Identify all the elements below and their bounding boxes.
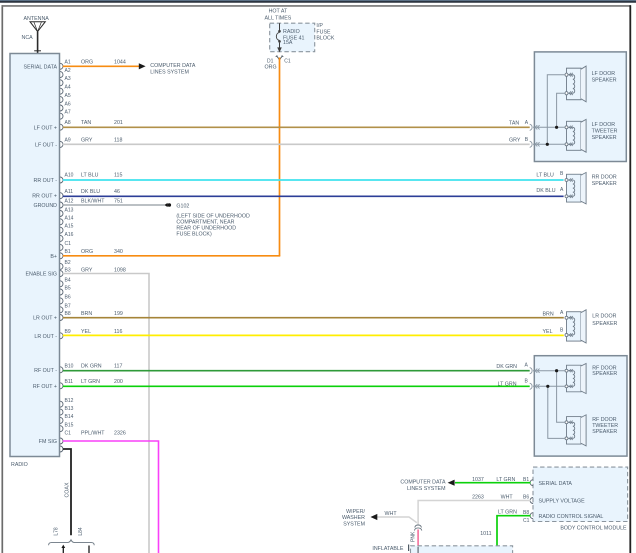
svg-text:LT GRN: LT GRN xyxy=(498,509,517,515)
svg-text:SPEAKER: SPEAKER xyxy=(592,371,617,377)
svg-text:C1: C1 xyxy=(523,518,530,524)
svg-text:46: 46 xyxy=(114,189,120,195)
wire A8 TAN 201 xyxy=(63,126,530,128)
svg-text:SUPPLY VOLTAGE: SUPPLY VOLTAGE xyxy=(539,499,586,505)
svg-text:LT GRN: LT GRN xyxy=(496,477,515,483)
svg-text:A5: A5 xyxy=(65,93,71,99)
svg-text:BLOCK: BLOCK xyxy=(316,36,334,42)
svg-text:B9: B9 xyxy=(65,329,71,335)
RF internal wires xyxy=(533,371,565,439)
body control module box xyxy=(533,467,628,521)
svg-text:118: 118 xyxy=(114,138,122,144)
antenna lead wires xyxy=(61,545,89,553)
svg-text:ORG: ORG xyxy=(81,60,93,66)
svg-text:LF OUT -: LF OUT - xyxy=(35,143,57,149)
antenna symbol xyxy=(30,22,45,54)
svg-text:A16: A16 xyxy=(65,232,74,238)
outer frame left xyxy=(1,5,3,553)
svg-text:BODY CONTROL MODULE: BODY CONTROL MODULE xyxy=(560,526,627,532)
wire A12 BLK/WHT 751 to ground xyxy=(63,204,165,206)
svg-text:A9: A9 xyxy=(65,138,71,144)
svg-text:SERIAL DATA: SERIAL DATA xyxy=(24,64,58,70)
svg-text:A12: A12 xyxy=(65,198,74,204)
junction RF A xyxy=(555,369,558,372)
svg-text:200: 200 xyxy=(114,379,123,385)
wire B11 LT GRN 200 xyxy=(63,385,530,387)
wire B3 GRY 1098 enable xyxy=(63,274,149,553)
radio pin number labels xyxy=(65,60,74,437)
svg-text:YEL: YEL xyxy=(543,329,553,335)
svg-text:A1: A1 xyxy=(65,60,71,66)
svg-text:LINES SYSTEM: LINES SYSTEM xyxy=(407,486,446,492)
svg-text:SPEAKER: SPEAKER xyxy=(592,135,617,141)
svg-text:A14: A14 xyxy=(65,215,74,221)
svg-text:B6: B6 xyxy=(523,494,529,500)
svg-text:TAN: TAN xyxy=(81,120,91,126)
svg-text:LR DOOR: LR DOOR xyxy=(592,314,616,320)
svg-text:B7: B7 xyxy=(65,304,71,310)
svg-text:L78: L78 xyxy=(54,527,60,536)
svg-text:L84: L84 xyxy=(78,527,84,536)
junction RF B xyxy=(546,385,549,388)
svg-text:15A: 15A xyxy=(283,40,293,46)
radio pin brackets xyxy=(60,63,63,452)
svg-text:GROUND: GROUND xyxy=(33,203,57,209)
svg-text:B2: B2 xyxy=(65,260,71,266)
svg-text:G102: G102 xyxy=(176,204,189,210)
svg-text:WIPER/: WIPER/ xyxy=(346,509,365,515)
svg-text:WASHER: WASHER xyxy=(342,515,365,521)
svg-text:BRN: BRN xyxy=(543,312,554,318)
svg-text:B11: B11 xyxy=(65,379,74,385)
svg-text:NCA: NCA xyxy=(22,35,34,41)
wire A1 ORG 1044 serial data xyxy=(63,65,139,67)
svg-text:GRY: GRY xyxy=(81,267,93,273)
svg-text:1037: 1037 xyxy=(472,477,484,483)
svg-text:SERIAL DATA: SERIAL DATA xyxy=(539,481,573,487)
svg-text:B5: B5 xyxy=(65,286,71,292)
svg-text:B8: B8 xyxy=(65,311,71,317)
LF tweeter SP2 xyxy=(565,119,586,152)
svg-text:1011: 1011 xyxy=(480,531,491,537)
svg-text:BLK/WHT: BLK/WHT xyxy=(81,198,105,204)
svg-text:RF OUT +: RF OUT + xyxy=(33,384,57,390)
wire color/circuit labels for radio pins xyxy=(81,60,126,437)
junction LF B xyxy=(546,143,549,146)
svg-text:1044: 1044 xyxy=(114,60,126,66)
svg-text:201: 201 xyxy=(114,120,123,126)
svg-text:B15: B15 xyxy=(65,422,74,428)
svg-text:B14: B14 xyxy=(65,414,74,420)
inline connector on WHT/PNK xyxy=(414,525,421,531)
antenna lead brace xyxy=(49,540,95,545)
svg-text:TAN: TAN xyxy=(509,120,519,126)
svg-text:A15: A15 xyxy=(65,224,74,230)
svg-text:199: 199 xyxy=(114,311,123,317)
svg-text:SPEAKER: SPEAKER xyxy=(592,181,617,187)
inflatable restraint box xyxy=(372,545,512,553)
svg-text:I/P: I/P xyxy=(316,23,323,29)
wire COAX xyxy=(63,449,71,535)
outer frame top xyxy=(2,5,632,7)
wire ORG from fuse down to B+ xyxy=(279,58,281,256)
svg-text:ANTENNA: ANTENNA xyxy=(24,16,50,22)
svg-text:B+: B+ xyxy=(50,254,57,260)
svg-text:ORG: ORG xyxy=(265,65,277,71)
wiper/washer branch WHT xyxy=(372,517,417,523)
LF box edge connector A xyxy=(530,124,540,130)
svg-text:LR OUT -: LR OUT - xyxy=(34,334,57,340)
svg-text:GRY: GRY xyxy=(509,137,521,143)
svg-text:LR OUT +: LR OUT + xyxy=(33,316,57,322)
svg-text:1098: 1098 xyxy=(114,267,126,273)
LF internal wires xyxy=(533,75,565,145)
svg-text:LT BLU: LT BLU xyxy=(536,172,554,178)
svg-text:RR DOOR: RR DOOR xyxy=(592,175,617,181)
arrow to computer data lines xyxy=(139,63,146,69)
RF box edge connector B xyxy=(530,383,540,389)
svg-text:A3: A3 xyxy=(65,76,71,82)
svg-text:ORG: ORG xyxy=(81,249,93,255)
wire B9 YEL 116 xyxy=(63,334,564,336)
svg-text:BRN: BRN xyxy=(81,311,92,317)
svg-text:A7: A7 xyxy=(65,110,71,116)
svg-text:FUSE BLOCK): FUSE BLOCK) xyxy=(176,231,212,237)
fuse box (I/P fuse block) xyxy=(265,8,335,51)
wire A9 GRY 118 xyxy=(63,143,530,145)
svg-text:TWEETER: TWEETER xyxy=(592,128,618,134)
svg-text:LF DOOR: LF DOOR xyxy=(592,122,616,128)
svg-text:DK BLU: DK BLU xyxy=(81,189,100,195)
svg-text:340: 340 xyxy=(114,249,123,255)
BCM pin brackets xyxy=(530,480,533,519)
svg-text:A13: A13 xyxy=(65,208,74,214)
svg-text:2326: 2326 xyxy=(114,431,126,437)
LR door speaker SP4 xyxy=(565,310,586,343)
ground splice G102 xyxy=(164,203,250,237)
svg-text:WHT: WHT xyxy=(385,511,398,517)
svg-text:LF DOOR: LF DOOR xyxy=(592,71,616,77)
svg-text:INFLATABLE: INFLATABLE xyxy=(372,546,403,552)
svg-text:FM SIG: FM SIG xyxy=(39,439,57,445)
wire BCM B1 LT GRN 1037 xyxy=(455,482,531,484)
wire C1 PPL/WHT 2326 FM SIG xyxy=(63,441,159,553)
svg-text:C1: C1 xyxy=(65,241,72,247)
svg-text:LT GRN: LT GRN xyxy=(498,381,517,387)
RR door speaker SP3 xyxy=(565,172,586,203)
svg-text:B13: B13 xyxy=(65,406,74,412)
wire A10 LT BLU 115 xyxy=(63,179,564,181)
svg-text:WHT: WHT xyxy=(501,495,514,501)
wire BCM B8 LT GRN 1011 xyxy=(497,516,531,553)
LF door speaker SP1 xyxy=(565,66,586,102)
svg-text:DK GRN: DK GRN xyxy=(81,363,102,369)
svg-text:C1: C1 xyxy=(284,59,291,65)
svg-text:TWEETER: TWEETER xyxy=(592,423,618,429)
svg-text:RR OUT +: RR OUT + xyxy=(32,194,57,200)
RF door speaker box xyxy=(534,356,627,456)
svg-text:ENABLE SIG: ENABLE SIG xyxy=(26,272,58,278)
svg-text:A8: A8 xyxy=(65,120,71,126)
svg-text:PNK: PNK xyxy=(411,531,417,542)
wire BCM B6 WHT 2263 xyxy=(418,501,530,525)
wire PNK continuation inside inflatable box xyxy=(417,547,419,553)
svg-text:116: 116 xyxy=(114,329,122,335)
svg-text:A10: A10 xyxy=(65,172,74,178)
svg-text:B6: B6 xyxy=(65,295,71,301)
svg-text:A4: A4 xyxy=(65,85,71,91)
RF door speaker SP5 xyxy=(565,363,586,393)
LF door speaker box xyxy=(534,52,626,162)
svg-text:B4: B4 xyxy=(65,278,71,284)
svg-text:COMPUTER DATA: COMPUTER DATA xyxy=(150,63,196,69)
svg-text:SPEAKER: SPEAKER xyxy=(592,429,617,435)
svg-text:DK BLU: DK BLU xyxy=(536,188,555,194)
svg-text:RADIO: RADIO xyxy=(283,29,300,35)
svg-text:GRY: GRY xyxy=(81,138,93,144)
svg-text:COMPUTER DATA: COMPUTER DATA xyxy=(400,479,446,485)
svg-text:B1: B1 xyxy=(65,249,71,255)
wire B1 ORG 340 B+ xyxy=(63,255,280,257)
svg-text:PPL/WHT: PPL/WHT xyxy=(81,431,105,437)
wire PNK to inflatable xyxy=(417,530,419,547)
svg-text:SYSTEM: SYSTEM xyxy=(343,521,365,527)
svg-text:RR OUT -: RR OUT - xyxy=(34,178,58,184)
svg-text:C1: C1 xyxy=(65,431,72,437)
wire A11 DK BLU 46 xyxy=(63,195,564,197)
svg-text:LINES SYSTEM: LINES SYSTEM xyxy=(150,70,189,76)
svg-text:115: 115 xyxy=(114,172,122,178)
top navy bar xyxy=(0,0,636,1)
svg-text:751: 751 xyxy=(114,198,123,204)
RF box edge connector A xyxy=(530,368,540,374)
svg-text:RADIO CONTROL SIGNAL: RADIO CONTROL SIGNAL xyxy=(539,514,604,520)
svg-text:RADIO: RADIO xyxy=(11,462,28,468)
svg-text:A2: A2 xyxy=(65,68,71,74)
radio U1 box xyxy=(10,54,60,457)
outer frame right xyxy=(629,5,631,553)
svg-text:SPEAKER: SPEAKER xyxy=(592,321,617,327)
RF tweeter SP6 xyxy=(565,415,586,446)
svg-text:ALL TIMES: ALL TIMES xyxy=(265,15,292,21)
svg-text:LT BLU: LT BLU xyxy=(81,172,99,178)
svg-text:A6: A6 xyxy=(65,101,71,107)
svg-text:117: 117 xyxy=(114,363,122,369)
LF box edge connector B xyxy=(530,141,540,147)
junction LF A xyxy=(555,126,558,129)
svg-text:LF OUT +: LF OUT + xyxy=(34,125,57,131)
svg-text:RF OUT -: RF OUT - xyxy=(34,368,57,374)
svg-text:B3: B3 xyxy=(65,267,71,273)
svg-text:A11: A11 xyxy=(65,189,74,195)
svg-text:SPEAKER: SPEAKER xyxy=(592,78,617,84)
svg-text:DK GRN: DK GRN xyxy=(496,364,517,370)
svg-text:COAX: COAX xyxy=(64,482,70,497)
svg-text:HOT AT: HOT AT xyxy=(269,8,288,14)
fuse F41 element xyxy=(276,23,281,52)
connector D1/C1 below fuse xyxy=(265,56,291,71)
svg-text:FUSE: FUSE xyxy=(316,29,331,35)
svg-text:YEL: YEL xyxy=(81,329,91,335)
svg-text:B10: B10 xyxy=(65,363,74,369)
wire B8 BRN 199 xyxy=(63,317,564,319)
svg-text:LT GRN: LT GRN xyxy=(81,379,100,385)
wire B10 DK GRN 117 xyxy=(63,370,530,372)
svg-text:B12: B12 xyxy=(65,398,74,404)
radio left signal labels xyxy=(24,64,58,445)
svg-text:2263: 2263 xyxy=(472,495,484,501)
